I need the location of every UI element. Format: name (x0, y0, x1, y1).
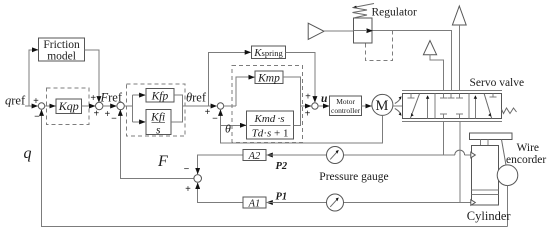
svg-text:Kspring: Kspring (253, 47, 283, 59)
svg-text:q: q (24, 145, 32, 162)
svg-text:A1: A1 (248, 199, 261, 210)
svg-text:+: + (305, 92, 311, 103)
svg-text:+: + (33, 96, 39, 107)
svg-text:+: + (305, 109, 311, 120)
svg-text:+: + (90, 93, 96, 104)
svg-text:θ: θ (225, 121, 231, 135)
svg-text:P2: P2 (276, 161, 288, 172)
svg-text:Kfp: Kfp (151, 90, 169, 102)
svg-text:Wire: Wire (517, 142, 540, 154)
svg-text:M: M (376, 98, 389, 114)
svg-text:+: + (205, 107, 211, 118)
svg-text:s: s (156, 124, 161, 136)
svg-text:Cylinder: Cylinder (467, 209, 512, 223)
svg-text:−: − (184, 164, 190, 175)
svg-text:+: + (185, 184, 191, 195)
svg-text:Pressure gauge: Pressure gauge (319, 171, 388, 183)
svg-text:Servo valve: Servo valve (470, 77, 525, 89)
svg-text:−: − (212, 114, 218, 125)
svg-text:Regulator: Regulator (372, 7, 418, 19)
svg-text:Kmd ·s: Kmd ·s (253, 113, 284, 125)
svg-text:Kqp: Kqp (58, 99, 79, 113)
svg-text:model: model (47, 51, 76, 63)
svg-text:controller: controller (331, 106, 361, 115)
svg-text:Td·s + 1: Td·s + 1 (252, 128, 289, 140)
svg-text:Fref: Fref (100, 91, 123, 105)
svg-text:encorder: encorder (506, 154, 546, 166)
svg-text:P1: P1 (276, 192, 288, 203)
svg-text:A2: A2 (248, 151, 261, 162)
svg-text:−: − (34, 112, 40, 123)
svg-text:Friction: Friction (43, 39, 80, 51)
svg-text:Motor: Motor (336, 97, 355, 106)
svg-text:+: + (93, 109, 99, 120)
svg-text:θref: θref (186, 91, 207, 105)
svg-text:qref: qref (5, 94, 26, 108)
svg-text:Kmp: Kmp (257, 72, 280, 84)
svg-text:F: F (157, 153, 168, 170)
svg-text:−: − (111, 113, 117, 124)
svg-text:+: + (104, 109, 110, 120)
svg-text:Kfi: Kfi (150, 111, 165, 123)
svg-text:u: u (321, 93, 328, 105)
